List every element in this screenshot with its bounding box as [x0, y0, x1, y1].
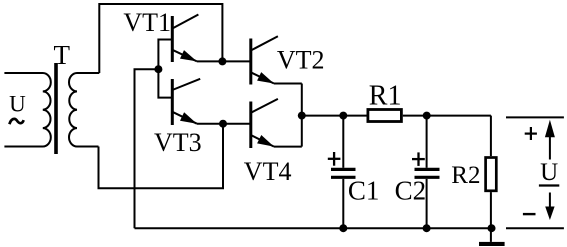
svg-text:C2: C2	[395, 176, 427, 206]
svg-text:R1: R1	[369, 81, 402, 112]
svg-text:T: T	[54, 40, 71, 70]
svg-text:R2: R2	[451, 162, 480, 189]
svg-text:VT3: VT3	[154, 128, 202, 157]
svg-text:U: U	[9, 91, 26, 116]
svg-text:C1: C1	[348, 176, 380, 206]
svg-text:VT2: VT2	[277, 45, 325, 74]
svg-text:VT4: VT4	[244, 157, 292, 186]
svg-text:VT1: VT1	[123, 8, 171, 37]
svg-text:U: U	[540, 159, 558, 186]
